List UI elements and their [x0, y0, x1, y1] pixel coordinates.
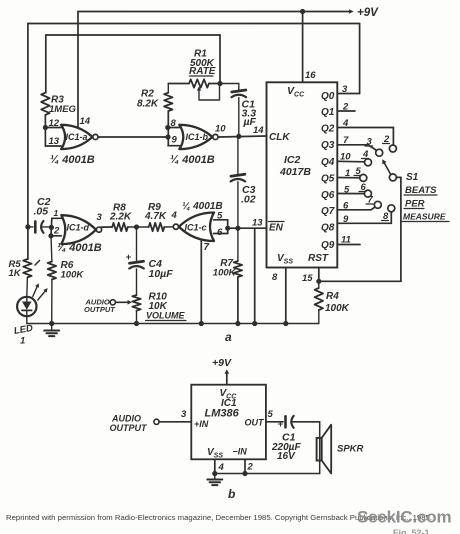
- svg-text:10: 10: [215, 124, 226, 135]
- capacitor C1 3.3uF: [220, 83, 239, 85]
- svg-text:14: 14: [80, 116, 91, 127]
- wire: R2 to IC1-b inputs: [167, 111, 169, 146]
- switch S1 wiper arm: [384, 162, 391, 175]
- wire: IC1-b output to CLK: [218, 136, 267, 137]
- wire: IC1 Vss pin 4: [214, 459, 216, 473]
- wire: audio output to R10 wiper: [115, 301, 129, 303]
- wire: IC1-c pin7 to ground rail: [200, 240, 202, 324]
- node junction pin2 / R6: [48, 233, 53, 238]
- svg-text:13: 13: [49, 136, 60, 147]
- svg-text:Q4: Q4: [321, 157, 335, 168]
- svg-text:2: 2: [53, 226, 60, 237]
- switch S1 contact 8: [388, 205, 395, 212]
- wire: IC1-d out to R8: [102, 226, 113, 228]
- svg-text:100K: 100K: [325, 303, 350, 314]
- svg-text:PER: PER: [405, 199, 425, 210]
- svg-text:9: 9: [172, 135, 178, 146]
- resistor R1 500K RATE potentiometer: [189, 79, 209, 87]
- switch S1 contact 5: [360, 174, 367, 181]
- svg-text:4: 4: [218, 462, 225, 473]
- svg-text:BEATS: BEATS: [405, 185, 437, 196]
- wire: wiper to RST: [396, 176, 401, 178]
- wire: Q2 pin4 to switch contact 2: [337, 127, 393, 129]
- node junction pin1 side: [49, 225, 54, 230]
- resistor R6 100K: [50, 236, 53, 262]
- node junction RST/R4: [316, 279, 321, 284]
- resistor R5 1K: [23, 259, 31, 277]
- capacitor C4 10uF: [136, 227, 138, 262]
- svg-text:Q1: Q1: [321, 107, 335, 118]
- svg-text:VOLUME: VOLUME: [146, 311, 185, 321]
- svg-text:IC1-c: IC1-c: [185, 222, 207, 232]
- node junction pin4/ground: [212, 471, 217, 476]
- svg-text:+: +: [278, 419, 284, 430]
- wire: IC1 pin14 Vcc to +9V: [77, 12, 79, 129]
- node junction R8/R9/C4: [128, 226, 149, 228]
- node junction pin7 bottom: [199, 321, 204, 326]
- svg-text:5: 5: [268, 409, 274, 420]
- svg-text:a: a: [225, 330, 232, 344]
- svg-text:µF: µF: [243, 116, 257, 128]
- node junction pin12: [43, 125, 48, 130]
- audio output terminal: [110, 300, 115, 305]
- wire: speaker return to ground: [215, 473, 320, 475]
- wire: Q3 pin7 to switch contact 3: [337, 144, 368, 146]
- wire: section a ground rail: [26, 316, 28, 323]
- resistor R7: [237, 228, 239, 261]
- node junction EN tee bottom: [252, 321, 257, 326]
- wire: EN node to IC2 pin13: [238, 227, 267, 229]
- resistor R3: [41, 93, 49, 115]
- svg-text:IC1-d: IC1-d: [67, 223, 90, 233]
- op-amp gate IC1-d (NOR 1/4 4001B): [61, 215, 96, 244]
- wire: C2 to IC1-d inputs: [50, 218, 52, 227]
- svg-text:1: 1: [54, 208, 59, 218]
- wire: Q5 pin1 to switch contact 5: [337, 177, 359, 179]
- svg-text:EN: EN: [269, 223, 284, 234]
- wire: Q9 stub pin11: [337, 244, 360, 246]
- svg-text:Q0: Q0: [321, 91, 335, 102]
- node junction pins 5-6: [225, 226, 230, 231]
- svg-text:.05: .05: [34, 206, 49, 218]
- node junction R6/ground: [49, 321, 54, 326]
- node junction C1 bottom on CLK wire: [236, 134, 241, 139]
- svg-text:+: +: [126, 252, 132, 263]
- op-amp gate IC1-a (NOR 1/4 4001B): [61, 125, 92, 149]
- svg-text:RST: RST: [308, 253, 329, 264]
- svg-text:IC1-b: IC1-b: [186, 132, 209, 142]
- node junction +9V to IC2 Vcc: [300, 9, 305, 14]
- switch S1 contact 3: [376, 149, 383, 156]
- wire: +9V top rail: [78, 11, 350, 13]
- audio output terminal (amp input): [154, 419, 159, 424]
- resistor R9 4.7K: [149, 223, 165, 231]
- svg-text:13: 13: [252, 218, 263, 229]
- ground symbol (amp): [214, 474, 216, 480]
- svg-text:b: b: [228, 487, 235, 501]
- wire: IC2 RST pin 15: [318, 268, 320, 282]
- svg-text:4: 4: [171, 210, 178, 221]
- wire: IC1-c inputs tied: [214, 219, 228, 221]
- node junction Vss pin8 bottom: [283, 321, 288, 326]
- wire: R1 left to R2: [168, 83, 189, 85]
- svg-text:+9V: +9V: [212, 357, 232, 369]
- switch S1 contact 4: [365, 159, 372, 166]
- wire: IC2 Vss pin 8: [285, 268, 287, 324]
- wire: Q4 pin10 to switch contact 4: [337, 160, 364, 163]
- svg-text:IC1-a: IC1-a: [66, 132, 88, 142]
- svg-text:100K: 100K: [61, 270, 85, 281]
- op-amp U1 LM386 body: [191, 385, 266, 460]
- speaker SPKR: [319, 422, 321, 474]
- wire: Q0 feedback rail (pin3 to left rail): [28, 23, 360, 25]
- svg-text:R4: R4: [326, 291, 339, 302]
- svg-text:7: 7: [204, 242, 210, 253]
- svg-text:¼ 4001B: ¼ 4001B: [170, 154, 215, 166]
- svg-text:2.2K: 2.2K: [109, 212, 132, 223]
- svg-text:LM386: LM386: [205, 408, 240, 420]
- svg-text:100K: 100K: [213, 268, 237, 279]
- svg-text:10µF: 10µF: [149, 268, 174, 280]
- svg-text:OUTPUT: OUTPUT: [110, 423, 149, 433]
- svg-text:2: 2: [247, 462, 254, 473]
- wire: R3 to IC1-a inputs: [44, 115, 46, 146]
- switch S1 contact 2: [389, 145, 396, 152]
- svg-text:Q9: Q9: [321, 240, 335, 251]
- svg-text:SPKR: SPKR: [337, 444, 364, 455]
- svg-text:8.2K: 8.2K: [137, 99, 159, 110]
- svg-text:Q8: Q8: [321, 223, 335, 234]
- LED LED1: [26, 277, 29, 296]
- svg-text:Q6: Q6: [321, 190, 335, 201]
- op-amp gate IC1-b (NOR 1/4 4001B): [179, 125, 212, 149]
- capacitor C3 .02: [237, 136, 239, 174]
- svg-text:CLK: CLK: [269, 132, 290, 143]
- node junction R7 bottom: [235, 321, 240, 326]
- wire: EN tee down to ground rail: [254, 228, 256, 323]
- svg-text:S1: S1: [406, 172, 419, 183]
- svg-text:6: 6: [217, 227, 223, 238]
- resistor R2: [167, 84, 169, 93]
- svg-text:4017B: 4017B: [279, 166, 311, 178]
- svg-text:SeekIC.com: SeekIC.com: [357, 508, 451, 527]
- wire: OUT pin5 to C1: [266, 421, 283, 423]
- svg-text:+IN: +IN: [194, 419, 209, 429]
- svg-text:12: 12: [49, 118, 60, 129]
- svg-text:IC2: IC2: [284, 154, 301, 166]
- node junction pin2: [242, 471, 247, 476]
- node junction EN/C3: [235, 226, 240, 231]
- switch S1 wiper pivot: [389, 174, 396, 181]
- wire: +9V arrow to IC1 Vcc: [226, 372, 228, 385]
- svg-text:¼ 4001B: ¼ 4001B: [50, 154, 95, 166]
- node junction pin9 (IC1-a out): [165, 134, 170, 139]
- tick mark: [35, 261, 40, 266]
- svg-text:−IN: −IN: [233, 447, 248, 457]
- svg-text:Q2: Q2: [321, 124, 335, 135]
- resistor R10 10K VOLUME potentiometer: [132, 295, 140, 311]
- svg-text:Q5: Q5: [321, 174, 335, 185]
- svg-text:4.7K: 4.7K: [144, 211, 167, 222]
- svg-text:1MEG: 1MEG: [49, 104, 77, 115]
- svg-text:3: 3: [181, 409, 187, 420]
- wire: Q1 stub pin2: [337, 110, 355, 112]
- R1 wiper arm: [197, 87, 201, 91]
- capacitor C2 .05: [25, 224, 30, 229]
- svg-text:16: 16: [305, 70, 316, 81]
- ground symbol (section a): [51, 324, 53, 331]
- wire: IC2 pin16 Vcc to +9V: [302, 12, 304, 83]
- switch S1 contact 7: [374, 201, 381, 208]
- svg-text:16V: 16V: [277, 451, 296, 462]
- wire: Q7 pin6 to switch contact 7: [337, 209, 371, 211]
- svg-text:15: 15: [302, 273, 313, 284]
- wire: IC1 -IN pin 2: [244, 459, 246, 473]
- svg-text:8: 8: [272, 272, 278, 283]
- svg-text:RATE: RATE: [189, 66, 216, 77]
- svg-text:1: 1: [20, 336, 25, 347]
- wire: left rail down to C2 node: [27, 24, 29, 260]
- svg-text:3: 3: [97, 212, 103, 223]
- svg-text:8: 8: [171, 118, 177, 129]
- svg-text:3: 3: [342, 84, 348, 95]
- svg-text:+9V: +9V: [357, 7, 379, 19]
- svg-text:OUTPUT: OUTPUT: [84, 305, 116, 314]
- wire: R3 rail: [46, 34, 220, 36]
- svg-text:Fig. 52-1: Fig. 52-1: [393, 528, 430, 534]
- svg-text:¼ 4001B: ¼ 4001B: [57, 242, 102, 254]
- switch S1 contact 6: [364, 190, 371, 197]
- svg-text:.02: .02: [241, 194, 256, 206]
- node junction R10 bottom: [134, 321, 139, 326]
- wire: audio input to pin 3: [159, 421, 191, 423]
- wire: IC1-a output to IC1-b inputs: [98, 136, 168, 138]
- svg-text:OUT: OUT: [245, 418, 266, 428]
- wire: Q8 pin9 to switch contact 8: [337, 222, 391, 224]
- node junction pin8: [165, 125, 170, 130]
- IC2 4017B body: [267, 82, 338, 267]
- LED emission arrows: [33, 285, 38, 296]
- resistor R4 100K: [318, 281, 320, 288]
- op-amp gate IC1-c (NOR 1/4 4001B mirrored): [179, 213, 214, 242]
- resistor R8 2.2K: [112, 223, 128, 231]
- node junction R1 right / C1: [217, 81, 222, 86]
- svg-text:MEASURE: MEASURE: [403, 212, 446, 222]
- svg-text:Q3: Q3: [321, 140, 335, 151]
- wire: R7 to ground rail: [237, 277, 239, 324]
- wire: Q6 pin5 to switch contact 6: [337, 193, 364, 195]
- svg-text:1K: 1K: [9, 268, 22, 279]
- svg-text:Q7: Q7: [321, 206, 335, 217]
- svg-text:AUDIO: AUDIO: [111, 414, 141, 424]
